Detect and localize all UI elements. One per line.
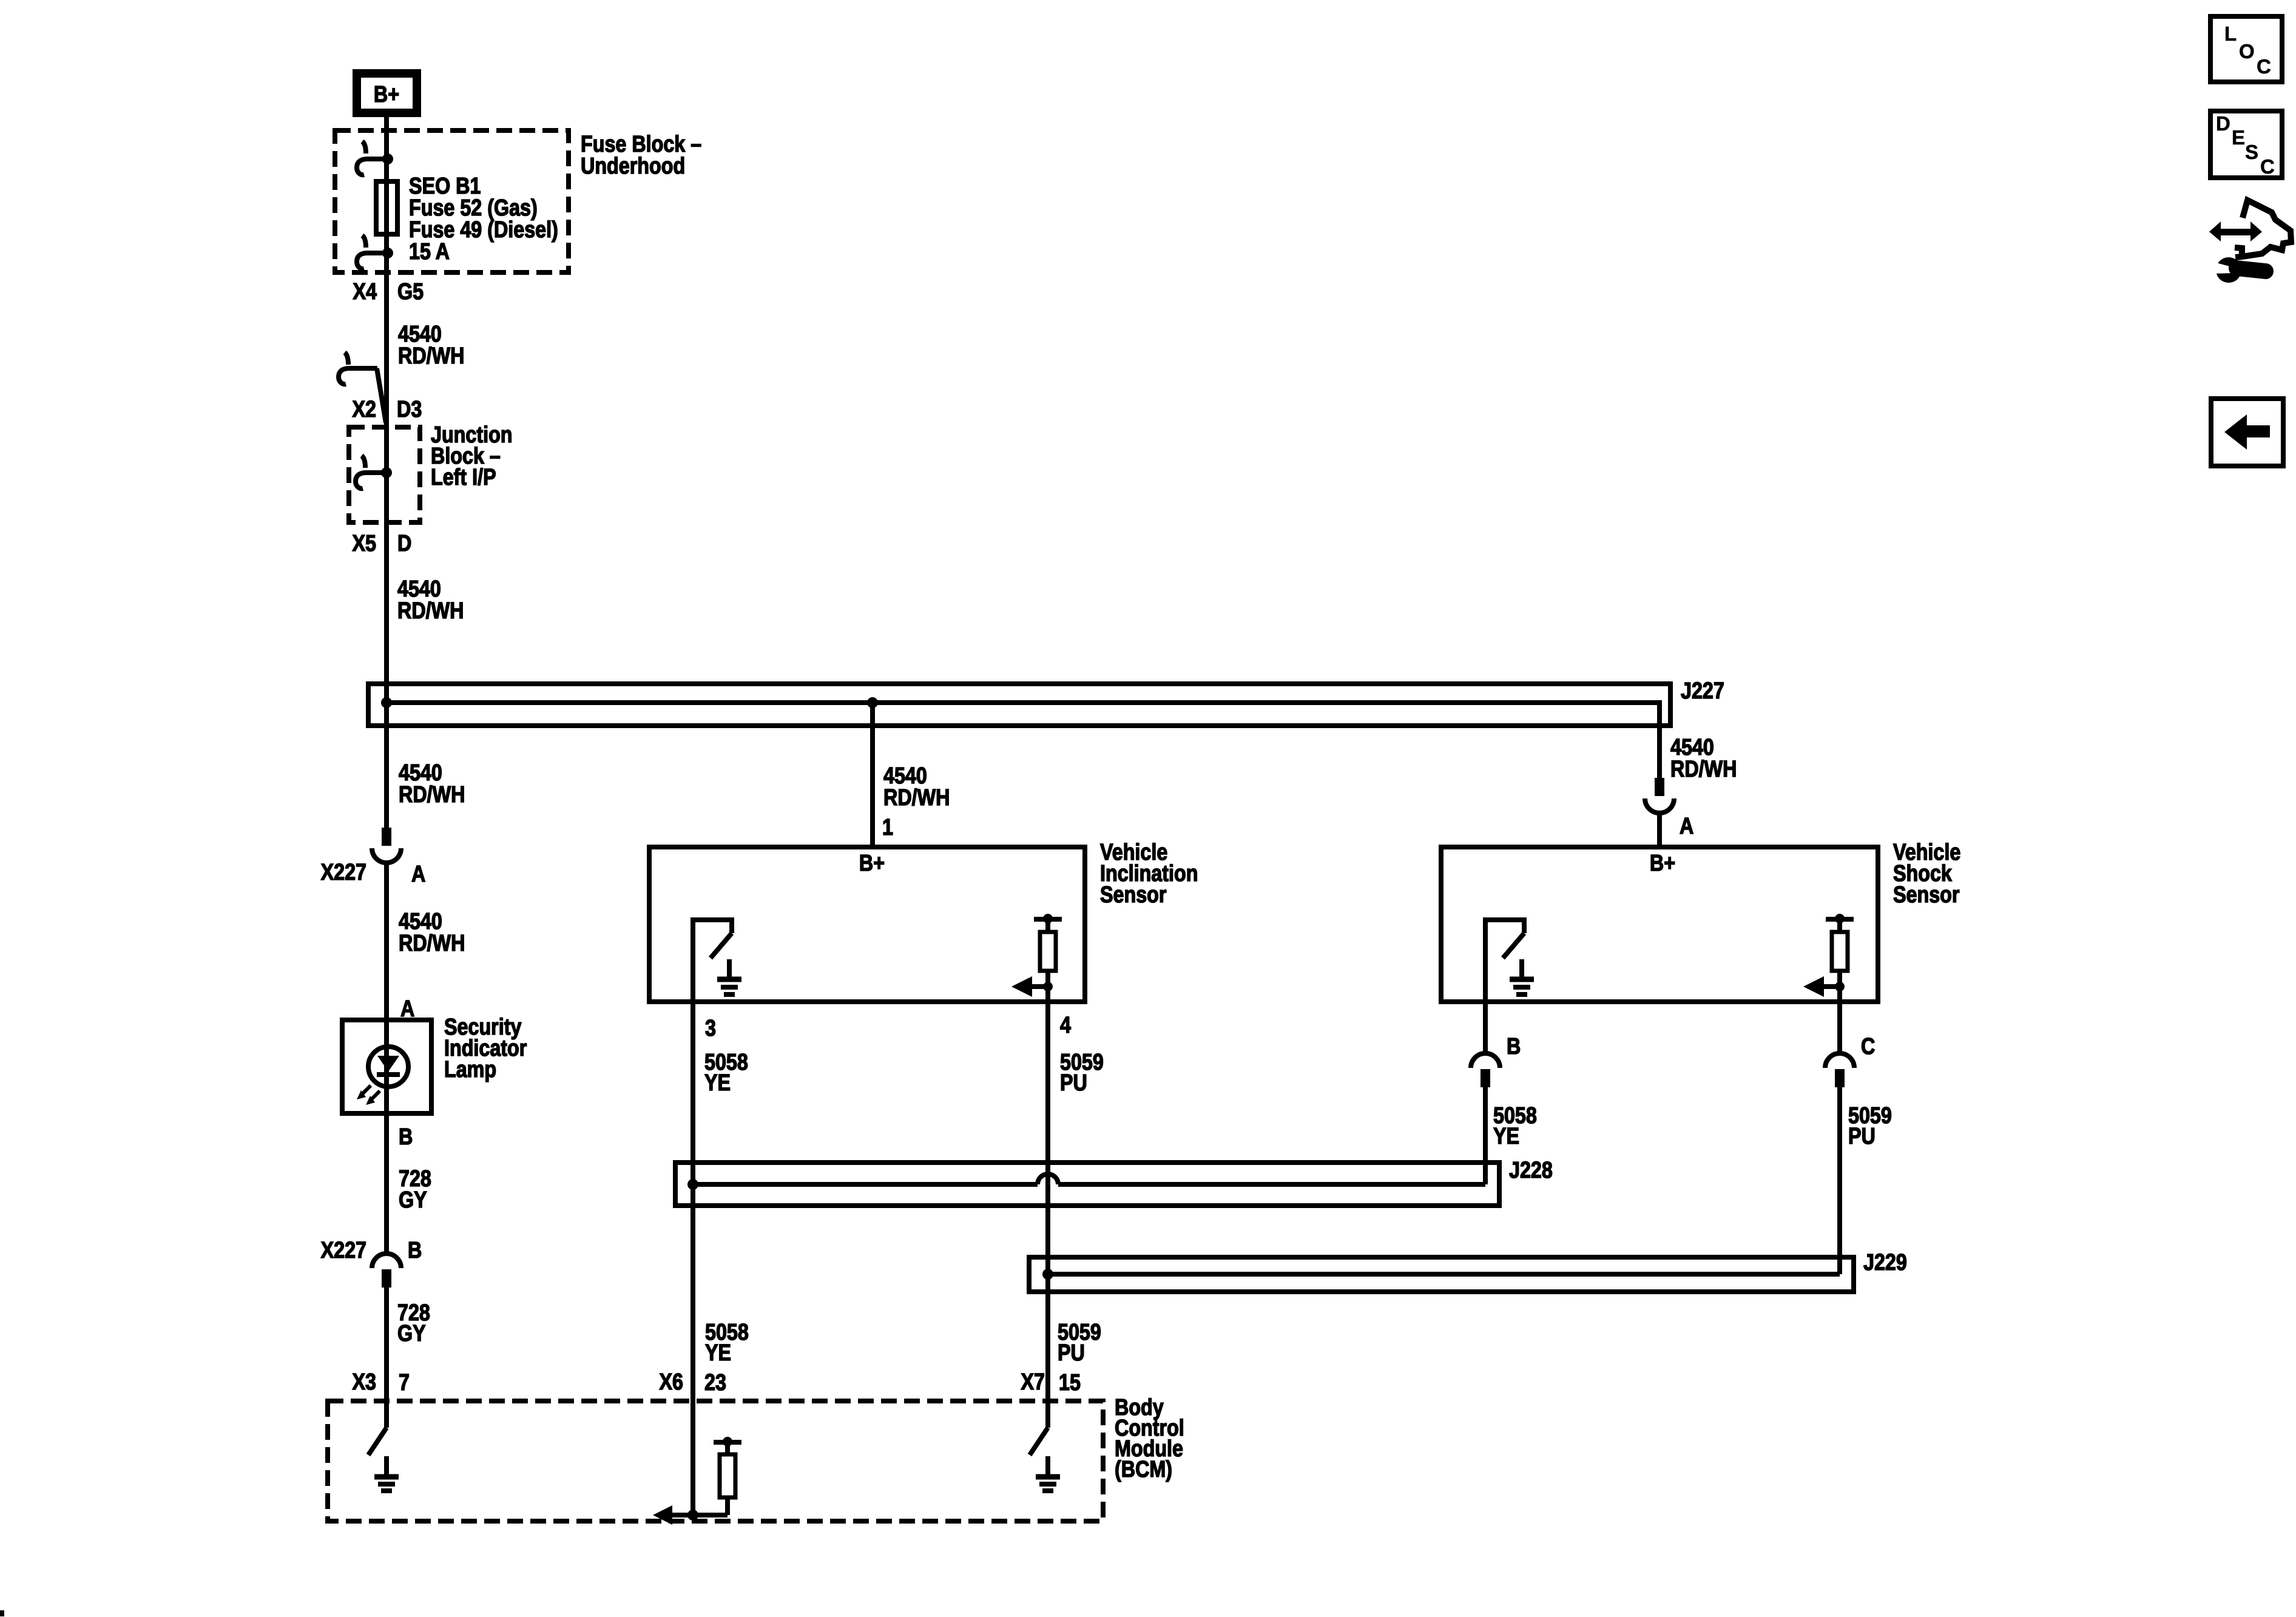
shock sensor internal arrow to pin C [1803, 976, 1845, 997]
svg-text:G5: G5 [397, 279, 424, 305]
svg-text:RD/WH: RD/WH [883, 785, 950, 811]
wire label 728 GY [397, 1300, 430, 1346]
svg-text:15: 15 [1059, 1370, 1081, 1396]
BCM X3 internal switch [368, 1401, 387, 1455]
fuse SEO B1 [376, 181, 397, 234]
inclination sensor internal resistor [1034, 914, 1062, 1004]
svg-text:C: C [1861, 1034, 1875, 1059]
junction dot J227 left [381, 697, 392, 708]
wire lamp to X227 B [384, 1113, 389, 1255]
wire label 5059 PU above BCM X7 [1058, 1320, 1101, 1366]
svg-text:X7: X7 [1021, 1369, 1045, 1395]
svg-text:3: 3 [705, 1016, 716, 1041]
shock sensor internal resistor [1826, 914, 1854, 1004]
svg-text:X3: X3 [353, 1369, 376, 1395]
inline connector C [1825, 1053, 1854, 1087]
splice pack J229 [1029, 1257, 1854, 1292]
svg-text:RD/WH: RD/WH [399, 782, 465, 808]
icon back arrow box [2211, 399, 2283, 466]
svg-text:D3: D3 [397, 397, 422, 422]
svg-text:PU: PU [1060, 1070, 1087, 1096]
pin labels X6 23 [660, 1369, 726, 1396]
svg-text:RD/WH: RD/WH [398, 343, 464, 369]
svg-text:L: L [2224, 22, 2237, 45]
label Junction Block - Left I/P [431, 422, 513, 490]
svg-text:X4: X4 [353, 279, 377, 305]
pin labels X4 G5 [353, 279, 424, 305]
inline connector X227 pin A [372, 828, 401, 863]
BCM X3 internal ground [374, 1456, 399, 1491]
svg-text:15 A: 15 A [409, 239, 450, 265]
wire label 4540 RD/WH [1670, 735, 1737, 782]
wire J227 to shock sensor pin A [1657, 703, 1662, 778]
junction dot fuse input [382, 154, 393, 164]
svg-text:7: 7 [399, 1370, 410, 1396]
svg-text:C: C [2260, 155, 2275, 178]
label Body Control Module (BCM) [1115, 1395, 1184, 1482]
wire label 4540 RD/WH [399, 909, 465, 956]
connector hook at fuse block output [357, 235, 387, 269]
BCM X7 internal ground [1036, 1456, 1060, 1491]
connector X2 pin D3 pass-through [339, 353, 386, 423]
svg-text:E: E [2232, 126, 2245, 149]
svg-text:Sensor: Sensor [1893, 882, 1960, 908]
inline connector X227 pin B [372, 1254, 401, 1288]
BCM X6 internal arrow [653, 1505, 728, 1525]
svg-text:B: B [408, 1238, 422, 1263]
labels X227 B [321, 1238, 422, 1263]
pin labels X5 D [353, 531, 412, 556]
wire J227 through to connector X227 A [384, 684, 389, 828]
svg-text:X5: X5 [353, 531, 376, 556]
wire connector A to shock sensor [1657, 812, 1662, 847]
svg-text:23: 23 [704, 1370, 726, 1396]
pin labels X2 D3 [353, 397, 422, 422]
junction dot in junction block [381, 467, 392, 478]
svg-text:B+: B+ [1650, 851, 1675, 876]
wire label 4540 RD/WH [397, 576, 464, 624]
icon harness outline shape [2235, 200, 2291, 257]
svg-text:YE: YE [704, 1070, 731, 1096]
svg-text:Lamp: Lamp [444, 1057, 496, 1082]
wire X227 A to security lamp [384, 862, 389, 1020]
wire through junction block [384, 427, 389, 522]
svg-text:Left I/P: Left I/P [431, 465, 496, 490]
wire inclination pin 4 to J228 hop to J229 to BCM X7 [1045, 1004, 1050, 1428]
wire label 728 GY [399, 1166, 431, 1213]
wire fuse block to junction block [384, 272, 389, 427]
svg-text:PU: PU [1848, 1124, 1876, 1149]
icon DESC box [2210, 111, 2282, 178]
wire J227 to inclination sensor pin 1 [870, 703, 875, 847]
page corner mark [0, 1610, 4, 1616]
fuse block underhood dashed box [335, 130, 569, 272]
svg-text:GY: GY [397, 1321, 426, 1346]
connector hook at fuse block input [357, 141, 387, 175]
svg-text:PU: PU [1058, 1340, 1085, 1366]
inclination sensor internal switch [693, 917, 732, 1004]
junction dot fuse output [382, 248, 393, 258]
svg-text:C: C [2257, 55, 2271, 78]
inline connector B [1471, 1053, 1500, 1087]
svg-text:Sensor: Sensor [1100, 882, 1167, 908]
wire shock pin C to connector C [1837, 1004, 1842, 1055]
wire connector C to splice J229 [1837, 1087, 1842, 1274]
inclination sensor internal ground [717, 959, 741, 994]
BCM X6 internal resistor [714, 1437, 741, 1515]
svg-text:D: D [2216, 112, 2230, 135]
icon wrench [2212, 257, 2266, 283]
wire X227 B to BCM X3 [384, 1288, 389, 1401]
label SEO B1 Fuse 52 Fuse 49 15 A [409, 174, 558, 265]
svg-text:4: 4 [1060, 1013, 1071, 1038]
vehicle inclination sensor box [649, 847, 1085, 1002]
wire label 5058 YE [1493, 1103, 1537, 1149]
svg-text:YE: YE [705, 1340, 731, 1366]
wire connector B to splice J228 [1483, 1087, 1488, 1184]
body control module BCM dashed box [328, 1401, 1103, 1521]
BCM X7 internal switch [1030, 1428, 1048, 1455]
svg-text:YE: YE [1493, 1124, 1519, 1149]
svg-text:X227: X227 [321, 860, 366, 885]
svg-text:RD/WH: RD/WH [1670, 757, 1737, 782]
svg-text:(BCM): (BCM) [1115, 1457, 1172, 1482]
wire label 5058 YE [704, 1050, 748, 1096]
svg-text:Underhood: Underhood [581, 154, 685, 179]
labels X227 A [321, 860, 426, 887]
pin labels X7 15 [1021, 1369, 1081, 1396]
svg-text:B+: B+ [859, 851, 885, 876]
wire inclination pin 3 to splice J228 to BCM X6 [690, 1004, 695, 1515]
wire shock pin B to connector B [1483, 1004, 1488, 1055]
inline connector A at shock sensor [1645, 778, 1674, 813]
label Vehicle Inclination Sensor [1100, 840, 1198, 908]
splice pack J227 [368, 684, 1670, 728]
svg-text:X227: X227 [321, 1238, 366, 1263]
junction dot J228 left [687, 1179, 698, 1190]
wire label 4540 RD/WH [883, 763, 950, 811]
junction block left I/P dashed box [349, 427, 420, 522]
vehicle shock sensor box [1441, 847, 1878, 1002]
svg-text:B: B [399, 1124, 413, 1150]
svg-text:J227: J227 [1681, 678, 1724, 704]
wire junction block to splice J227 [384, 522, 389, 684]
connector hook inside junction block [356, 456, 385, 488]
wire label 4540 RD/WH [398, 322, 464, 369]
svg-text:D: D [397, 531, 411, 556]
shock sensor internal ground [1510, 959, 1534, 994]
svg-text:B: B [1507, 1034, 1521, 1059]
junction dot J227 middle [867, 697, 878, 708]
svg-text:X2: X2 [353, 397, 376, 422]
security indicator lamp [342, 1020, 431, 1113]
svg-text:RD/WH: RD/WH [399, 931, 465, 956]
pin labels X3 7 [353, 1369, 410, 1396]
wire label 5059 PU [1848, 1103, 1892, 1149]
svg-text:B+: B+ [374, 82, 399, 107]
label Fuse Block - Underhood [581, 132, 701, 179]
label Vehicle Shock Sensor [1893, 840, 1960, 908]
svg-text:J228: J228 [1509, 1158, 1553, 1183]
wire label 4540 RD/WH [399, 760, 465, 808]
svg-text:1: 1 [882, 815, 893, 840]
wire label 5059 PU [1060, 1050, 1104, 1096]
svg-text:RD/WH: RD/WH [397, 598, 464, 624]
svg-text:A: A [411, 862, 425, 887]
splice pack J228 [675, 1163, 1499, 1206]
svg-text:O: O [2239, 40, 2255, 62]
shock sensor internal switch [1485, 917, 1524, 1004]
svg-text:A: A [1680, 814, 1693, 839]
inclination sensor internal arrow to pin 4 [1011, 976, 1053, 997]
label Security Indicator Lamp [444, 1014, 527, 1082]
svg-text:GY: GY [399, 1187, 427, 1213]
icon harness routing double arrow [2209, 221, 2262, 241]
svg-text:S: S [2245, 141, 2258, 163]
svg-text:X6: X6 [660, 1369, 683, 1395]
junction dot J229 left [1042, 1269, 1053, 1280]
icon LOC box [2210, 16, 2282, 82]
wire label 5058 YE above BCM X6 [705, 1320, 749, 1366]
power symbol B+ [357, 73, 417, 113]
wire inside fuse block [384, 130, 389, 275]
wire B+ to fuse block [384, 117, 389, 130]
svg-text:J229: J229 [1863, 1250, 1907, 1275]
